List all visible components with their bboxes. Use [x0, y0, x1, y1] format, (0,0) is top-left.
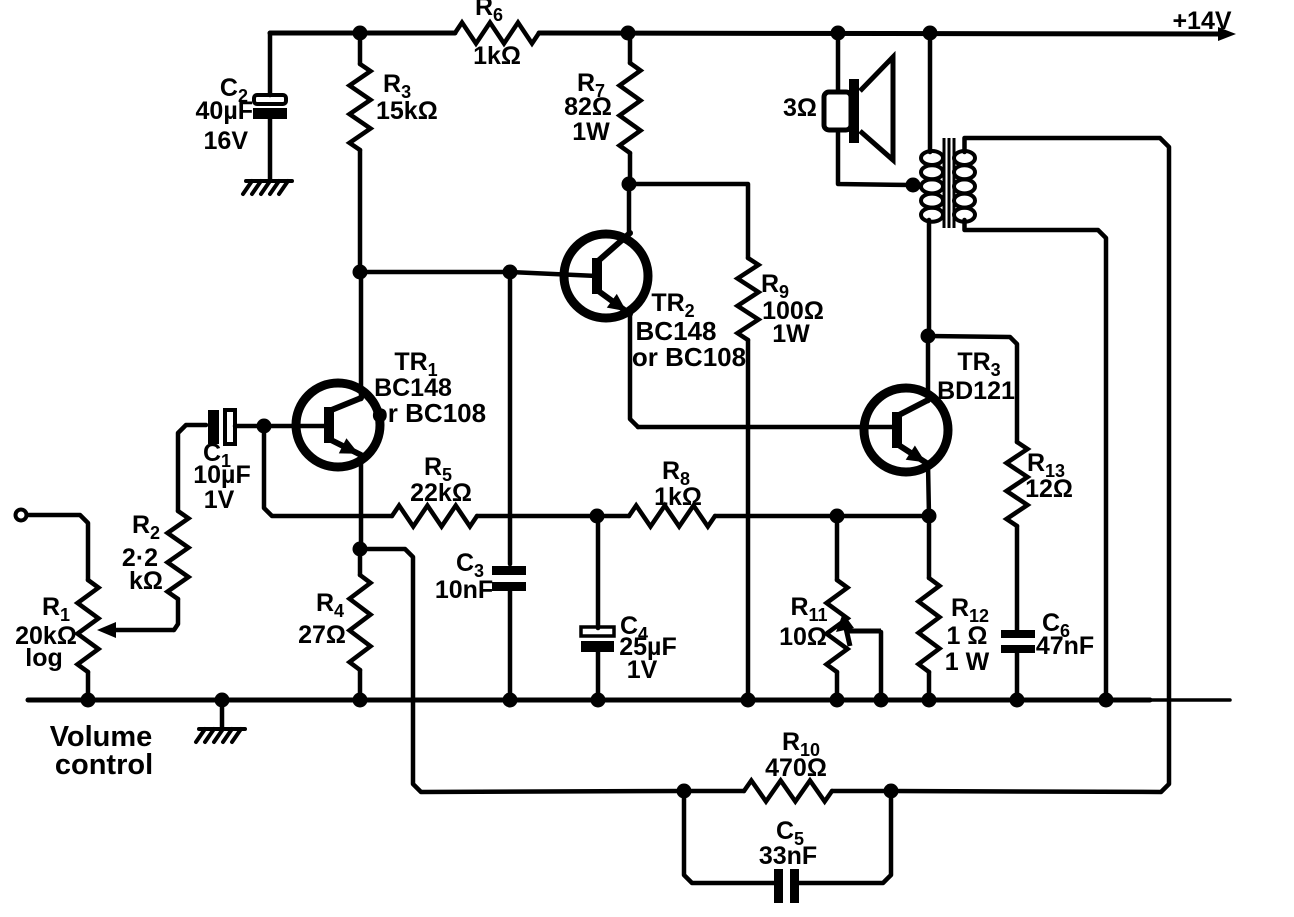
resistor R3 (15k) [350, 64, 371, 150]
svg-text:15kΩ: 15kΩ [376, 97, 438, 125]
svg-text:10nF: 10nF [435, 576, 493, 604]
wire R9 down to 0V rail [746, 340, 751, 700]
wire R9 top feed [629, 184, 748, 258]
wire TR1 emitter down [359, 455, 364, 549]
wire R8 to TR3 emitter node [715, 514, 929, 519]
node C3/0V [503, 693, 518, 708]
node speaker/top-rail junction [831, 26, 846, 41]
wire C4 to 0V rail [596, 652, 601, 700]
wire C3 to 0V rail [508, 589, 513, 700]
capacitor C5 plates [774, 869, 799, 903]
node transformer-primary/top-rail junction [923, 26, 938, 41]
transformer secondary winding (right) [954, 151, 975, 222]
node R11 top [830, 509, 845, 524]
wire emitter node to R4 [358, 549, 363, 575]
ground on 0V rail (volume control) [196, 729, 245, 742]
svg-text:33nF: 33nF [759, 842, 817, 870]
wire R13 to C6 [1015, 526, 1020, 630]
resistor R10 (470R) [744, 781, 832, 802]
node TR2 collector / R7 / R9 [622, 177, 637, 192]
wire TR2 collector up [627, 184, 632, 233]
transformer core [944, 138, 954, 228]
node speaker / transformer primary tap [906, 178, 921, 193]
svg-text:1W: 1W [772, 320, 810, 348]
node R9/0V [741, 693, 756, 708]
wire C1 to TR1 base [235, 424, 331, 429]
svg-text:10Ω: 10Ω [779, 623, 827, 651]
wire R4 to 0V rail [358, 670, 363, 700]
svg-text:27Ω: 27Ω [298, 621, 346, 649]
svg-text:10µF: 10µF [193, 461, 250, 489]
svg-text:1kΩ: 1kΩ [654, 483, 702, 511]
wire node B to R8 [597, 514, 629, 519]
wire wiper to R2 bottom [174, 599, 178, 630]
svg-text:log: log [25, 644, 63, 672]
resistor R7 (82R 1W) [620, 63, 641, 153]
node TR1 emitter / R4 / feedback [353, 542, 368, 557]
preset R11 wiper arrow [836, 613, 881, 646]
ground below C2 [243, 181, 292, 194]
resistor R8 (1k) [629, 506, 715, 527]
wire emitter node to feedback drop [360, 549, 684, 792]
capacitor C1 (electrolytic) plates [208, 410, 235, 444]
svg-text:1 Ω: 1 Ω [947, 622, 988, 650]
wire rail corner down to C2 [268, 33, 273, 95]
svg-text:kΩ: kΩ [129, 567, 163, 595]
wire R13 top feed [928, 336, 1017, 442]
wire R11 top feed [835, 516, 840, 580]
svg-text:47nF: 47nF [1036, 632, 1094, 660]
resistor R11 (10R preset) [827, 580, 848, 672]
wire R7 to TR2 collector node [628, 153, 633, 184]
capacitor C6 plates [1001, 630, 1035, 653]
node ground/0V [215, 693, 230, 708]
node TR3 collector / R13 [921, 329, 936, 344]
wire R11 wiper to 0V rail [879, 632, 884, 700]
resistor R2 (2.2k) [168, 511, 189, 599]
wire TR2 base lead [510, 272, 597, 276]
svg-text:40µF: 40µF [196, 97, 253, 125]
wire +14V top rail right segment with arrow [539, 33, 1228, 34]
resistor R9 (100R 1W) [738, 258, 759, 340]
potentiometer R1 wiper arrow [97, 622, 174, 638]
wire TR2 emitter to TR3 base [638, 425, 895, 430]
transistor TR2 (BC148 or BC108) [564, 233, 648, 318]
wire R12 to 0V rail [927, 672, 932, 700]
node TR1 base / C1 / R5 [257, 419, 272, 434]
node A (R3 bottom / TR2 base) [353, 265, 368, 280]
svg-text:control: control [55, 749, 153, 781]
resistor R13 (12R) [1007, 442, 1028, 526]
node R11/0V [830, 693, 845, 708]
wire TR1 base node down to R5 [264, 426, 392, 516]
node TR3 emitter / R12 / R8 [922, 509, 937, 524]
svg-text:1V: 1V [627, 656, 658, 684]
wire 0V rail to ground stem [220, 700, 225, 729]
resistor R5 (22k) [392, 506, 477, 527]
node R1/0V [81, 693, 96, 708]
wire TR3 emitter down [928, 464, 929, 516]
wire TR1 collector up [359, 272, 364, 399]
node B (R5/R8/C4) [590, 509, 605, 524]
wire rail to speaker [836, 33, 841, 92]
svg-text:22kΩ: 22kΩ [410, 479, 472, 507]
wire C5 left leg [684, 791, 774, 883]
wire input to R1 top [27, 515, 88, 580]
svg-text:470Ω: 470Ω [765, 754, 827, 782]
svg-text:+14V: +14V [1172, 7, 1231, 35]
node C6/0V [1010, 693, 1025, 708]
transformer primary winding (left) [921, 151, 943, 222]
wire R3 to node A [358, 150, 363, 272]
svg-text:12Ω: 12Ω [1025, 475, 1073, 503]
wire transformer secondary bottom to 0V [965, 220, 1107, 700]
svg-text:82Ω: 82Ω [564, 93, 612, 121]
svg-text:or BC108: or BC108 [372, 398, 486, 428]
wire C5 right leg [799, 791, 891, 883]
node TR2 base junction [503, 265, 518, 280]
wire TR2 emitter down [630, 314, 638, 427]
node R12/0V [922, 693, 937, 708]
input terminal [16, 510, 27, 521]
capacitor C2 (electrolytic) plates [253, 95, 287, 119]
wire R11 to 0V rail [835, 672, 840, 700]
node R7/top-rail junction [621, 26, 636, 41]
wire 0V bottom rail thin right end [1150, 698, 1230, 702]
wire R1 to 0V rail [86, 672, 91, 700]
wire rail to transformer primary top [928, 33, 933, 152]
wire transformer primary bottom to TR3 collector [927, 220, 932, 336]
wire rail to R3 [358, 33, 363, 64]
wire 0V bottom rail [28, 698, 1150, 703]
wire speaker to transformer tap [838, 130, 912, 185]
wire R10 to feedback right [832, 789, 891, 794]
wire feedback left to R10 [684, 789, 744, 794]
node feedback left (R10/C5) [677, 784, 692, 799]
wire +14V top rail left segment [270, 31, 455, 36]
node feedback right (R10/C5) [884, 784, 899, 799]
svg-text:or BC108: or BC108 [632, 342, 746, 372]
wire rail to R7 [628, 33, 633, 63]
node R3/top-rail junction [353, 26, 368, 41]
node transformer-secondary/0V [1099, 693, 1114, 708]
resistor R1 (20k log volume control) [78, 580, 99, 672]
wire TR2 base node down to C3 [508, 272, 513, 564]
node R4/0V [353, 693, 368, 708]
wire R12 top feed [927, 516, 932, 578]
resistor R6 (1k) in top rail [455, 23, 539, 44]
wire transformer secondary top to feedback line [891, 138, 1169, 792]
wire R5 to node B [477, 514, 597, 519]
wire TR3 collector up [926, 336, 931, 401]
speaker LS (3R) symbol [824, 57, 893, 160]
wire node B down to C4 [596, 516, 601, 628]
svg-text:16V: 16V [204, 127, 249, 155]
node R11-wiper/0V [874, 693, 889, 708]
transistor TR3 (BD121) [864, 388, 948, 472]
resistor R12 (1R 1W) [919, 578, 940, 672]
arrowhead +14V rail end [1218, 27, 1236, 41]
svg-text:1V: 1V [204, 486, 235, 514]
svg-text:1kΩ: 1kΩ [473, 42, 521, 70]
capacitor C4 (electrolytic) plates [581, 627, 614, 652]
wire C2 to ground [268, 119, 273, 181]
svg-text:1W: 1W [572, 118, 610, 146]
resistor R4 (27R) [350, 575, 371, 670]
transistor TR1 (BC148 or BC108) [296, 383, 380, 467]
svg-text:BD121: BD121 [937, 377, 1015, 405]
wire node A to TR2 base node [360, 270, 510, 275]
capacitor C3 plates [492, 566, 526, 591]
svg-text:3Ω: 3Ω [783, 94, 817, 122]
wire R2 top to C1 [178, 425, 206, 511]
wire C6 to 0V rail [1015, 653, 1020, 700]
node C4/0V [591, 693, 606, 708]
svg-text:1 W: 1 W [945, 648, 990, 676]
